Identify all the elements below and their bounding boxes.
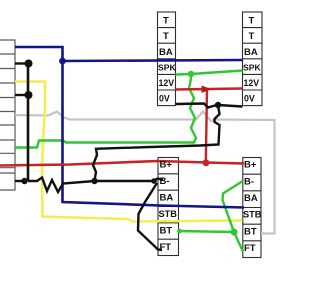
- svg-text:12V: 12V: [244, 78, 260, 88]
- wire black stub J1 bottom: [15, 180, 25, 182]
- svg-text:BA: BA: [244, 47, 258, 58]
- junction black bottom stub: [21, 178, 27, 184]
- junction black pin2: [25, 60, 33, 68]
- junction black 0V: [215, 102, 221, 108]
- wire green speaker from J1 to SPK drop: [15, 75, 196, 148]
- junction black at B-: [151, 178, 157, 184]
- wire black ground bus at J1: [27, 64, 30, 182]
- wire navy BA main from J1 down to U3: [15, 47, 244, 208]
- connector J1 left edge block: [0, 40, 15, 190]
- svg-text:BA: BA: [244, 193, 258, 204]
- svg-text:B+: B+: [160, 160, 173, 171]
- junction navy BA: [59, 58, 66, 65]
- wire green B- to FT at U4: [223, 181, 244, 252]
- svg-text:BT: BT: [244, 227, 257, 238]
- wire red 12V bus U1 to U2: [176, 89, 243, 90]
- wire green SPK bus U1 to U2: [176, 71, 243, 75]
- junction black mid: [91, 178, 97, 184]
- svg-text:T: T: [163, 31, 169, 42]
- wire black B- to FT at U3: [138, 183, 162, 250]
- svg-text:T: T: [249, 16, 255, 27]
- svg-text:SPK: SPK: [158, 63, 176, 73]
- wire black to B- with zigzag: [28, 178, 163, 193]
- wire gray remote loop: [15, 112, 275, 234]
- junction red triangle 12V: [202, 86, 212, 94]
- svg-text:T: T: [249, 31, 255, 42]
- junction red B+: [203, 159, 210, 166]
- wire navy BA bus U1 to U2: [63, 60, 243, 61]
- svg-text:BT: BT: [160, 226, 173, 237]
- junction black pin4: [25, 91, 33, 99]
- svg-text:T: T: [163, 16, 169, 27]
- svg-text:B-: B-: [160, 176, 170, 187]
- junction green SPK: [188, 71, 194, 77]
- svg-text:SPK: SPK: [243, 63, 261, 73]
- svg-text:B-: B-: [244, 177, 254, 188]
- junction green at U3 BT pin: [177, 229, 182, 234]
- svg-text:FT: FT: [160, 242, 172, 253]
- svg-text:STB: STB: [159, 209, 178, 219]
- wire black stub J1 pin4: [15, 94, 28, 96]
- connector U4 bottom-right terminal block: [243, 158, 261, 258]
- wire black 0V drop and middle run: [93, 105, 220, 181]
- svg-text:BA: BA: [160, 193, 174, 204]
- wire black 0V bus U1 to U2: [176, 104, 243, 108]
- wire green BT from U3: [178, 231, 234, 232]
- wire black stub J1 pin2: [15, 62, 28, 64]
- connector U3 bottom-left terminal block: [158, 158, 179, 256]
- svg-text:0V: 0V: [244, 94, 255, 104]
- svg-text:FT: FT: [244, 243, 256, 254]
- svg-text:12V: 12V: [159, 78, 175, 88]
- connector U1 top-left terminal block: [158, 12, 176, 106]
- svg-text:B+: B+: [244, 160, 257, 171]
- connector U2 top-right terminal block: [243, 12, 263, 106]
- svg-text:BA: BA: [159, 47, 173, 58]
- junction green BT: [231, 229, 238, 236]
- wire red B+ main: [0, 161, 244, 166]
- svg-text:0V: 0V: [159, 94, 170, 104]
- wire red 12V drop to B+: [206, 89, 207, 163]
- wire yellow STB: [15, 82, 243, 222]
- svg-text:STB: STB: [243, 210, 262, 220]
